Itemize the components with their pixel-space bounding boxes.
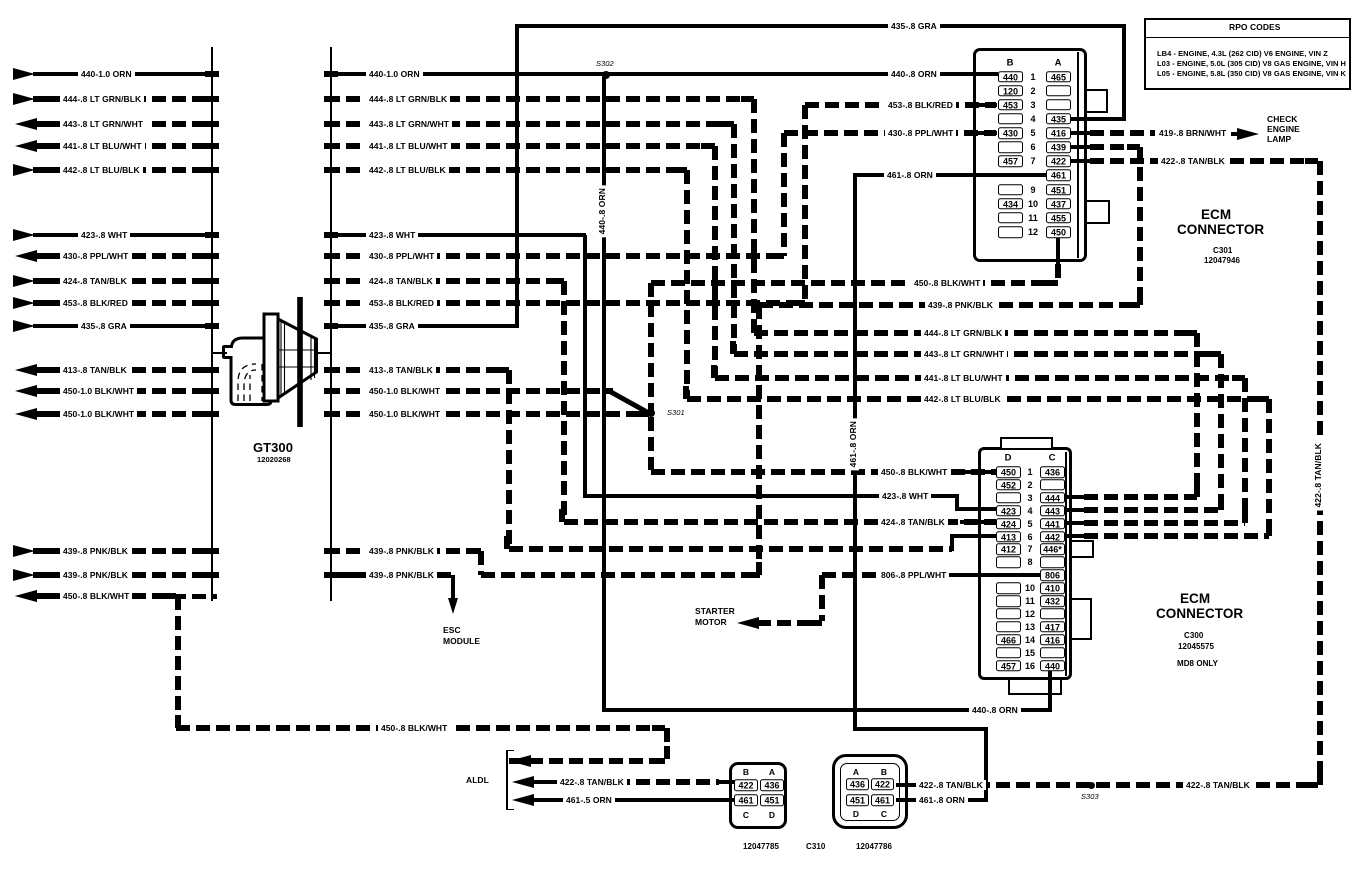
wire starter arrow [737, 617, 759, 629]
ALDL bracket [506, 750, 508, 810]
wire 450 bottom run [176, 725, 665, 731]
wire 450-1.0 BLK/WHT row y=391 [15, 385, 37, 397]
wire 450 aldl return [509, 758, 665, 764]
wire 422 vertical label [1313, 440, 1324, 511]
wire 461-.8 ORN bottom label [916, 795, 968, 805]
wire 430-.8 PPL/WHT row y=256 [15, 250, 37, 262]
splice S302 [602, 71, 610, 79]
wire 424 into D5 [564, 519, 996, 525]
splice S303 [1088, 782, 1095, 789]
CHECK ENGINE LAMP text [1264, 114, 1300, 124]
ESC MODULE text [440, 625, 464, 635]
ALDL text [463, 775, 492, 785]
bulkhead pass-through line right [330, 47, 333, 601]
wire 443-.8 LT GRN/WHT row y=124 [15, 118, 37, 130]
wire 461 bottom jog [853, 727, 988, 732]
wire 423 elbow [955, 496, 959, 511]
wire 422 stub right of C310 [896, 783, 976, 788]
bulkhead wire tick stubs [205, 71, 219, 77]
wire 413 elbow into D6 [950, 534, 955, 551]
wire 422 top run [1070, 159, 1090, 164]
wire 450-1.0 BLK/WHT row y=414 [15, 408, 37, 420]
wire 461 top run [853, 173, 1046, 178]
connector C300 body and pins [978, 447, 1072, 680]
wire 424 drop [561, 281, 567, 522]
wire 435 top run [515, 24, 1126, 28]
wire 443 cross run [734, 351, 1221, 357]
wire 444 cross run [754, 330, 1197, 336]
wire 423 horizontal [583, 494, 959, 498]
check engine arrow [1237, 128, 1259, 140]
wire 423-.8 WHT row y=235 [13, 229, 35, 241]
wire 440-1.0 ORN row y=74 [13, 68, 35, 80]
wire 435-.8 GRA row y=326 [13, 320, 35, 332]
wire 442 riser [684, 170, 690, 399]
wire 450 diagonal jog [609, 389, 652, 416]
wire 440 up to C16 [1048, 669, 1053, 710]
wire 461 vertical [853, 175, 858, 729]
wire 443 right drop [1218, 354, 1224, 510]
wire 440-.8 ORN label right [888, 69, 940, 79]
RPO CODES box [1144, 18, 1351, 90]
ECM CONNECTOR C300 text [1177, 594, 1213, 604]
wire 435 right drop [1122, 26, 1126, 121]
wire 422 aldl row [512, 776, 534, 788]
connector C301 body and pins [973, 48, 1087, 262]
ESC module drop wire [451, 575, 455, 600]
wire 439-.8 PNK/BLK row y=551 [13, 545, 35, 557]
wire 444 into C3 [1062, 495, 1084, 500]
connector C310 right half 12047786 [832, 754, 908, 829]
wire 424-.8 TAN/BLK row y=281 [13, 275, 35, 287]
wire 430 riser [781, 133, 787, 256]
wire starter riser [819, 575, 825, 621]
wire 413-.8 TAN/BLK row y=370 [15, 364, 37, 376]
wire 442 right drop [1266, 399, 1272, 536]
wire 450 into D1 [651, 469, 996, 475]
wire 806 run [822, 572, 877, 578]
GT300 grommet drawing [205, 280, 350, 470]
wire 439 mid run [759, 302, 1140, 308]
label 12047785 [740, 842, 782, 852]
wire 453 to B3 [805, 102, 996, 108]
wire 442 into C6 [1062, 534, 1084, 539]
wire 442-.8 LT BLU/BLK row y=170 [13, 164, 35, 176]
bulkhead pass-through line left [211, 47, 214, 601]
wire grommet stub right [316, 352, 332, 355]
wire 444-.8 LT GRN/BLK row y=99 [13, 93, 35, 105]
wire 444 right drop [1194, 333, 1200, 497]
connector C310 left half 12047785 [729, 762, 787, 829]
wire 439 right drop [1137, 147, 1143, 305]
wire 413 low run [509, 546, 952, 552]
wire 450 riser above S301 [648, 283, 654, 410]
wire 422 right vertical [1317, 161, 1323, 783]
wire 443 riser [731, 124, 737, 354]
wire 450-.8 BLK/WHT row y=596 [15, 590, 37, 602]
wire 450 below S301 [648, 417, 654, 470]
wire 422 bottom run [976, 782, 1318, 788]
wire 461 vertical label [848, 418, 859, 470]
GT300 label [250, 443, 296, 453]
label 12047786 [853, 842, 895, 852]
wire 444 riser [751, 99, 757, 333]
wire 450 upper run [651, 280, 1058, 286]
ECM CONNECTOR C301 text [1198, 210, 1234, 220]
wire 450 bottom drop [175, 596, 181, 726]
wire 435 vertical left [515, 26, 519, 328]
wire 450 from A12 [1056, 237, 1060, 264]
wire 442 cross run [687, 396, 1269, 402]
wire 441-.8 LT BLU/WHT row y=146 [15, 140, 37, 152]
wire 440 bottom run [602, 708, 1052, 713]
wire 439 merge corner [478, 551, 484, 575]
label C310 [803, 842, 828, 852]
STARTER MOTOR text [692, 606, 738, 616]
wire 440 vertical label [597, 185, 608, 237]
wire 443 into C4 [1062, 508, 1084, 513]
wire 441 riser [712, 146, 718, 378]
wire 430 to B5 [784, 130, 996, 136]
wire 441 right drop [1242, 378, 1248, 523]
wire 453 riser [802, 105, 808, 303]
dashed corner chunks [741, 96, 754, 102]
wire 450 aldl loop down [664, 728, 670, 759]
wire 441 cross run [715, 375, 1245, 381]
wire 453-.8 BLK/RED row y=303 [13, 297, 35, 309]
wire 450-.8 BLK/WHT row y=596 [15, 590, 37, 602]
wire grommet stub left [212, 352, 227, 355]
wire 461 aldl row [512, 794, 534, 806]
wire 439 center riser [756, 305, 762, 575]
wire 423 vertical [583, 235, 587, 496]
wire 440-.8 ORN vertical [602, 74, 607, 710]
wire 413 drop [506, 370, 512, 549]
wire 439 stub at A6 [1070, 145, 1090, 150]
wire 439-.8 PNK/BLK row y=575 [13, 569, 35, 581]
splice S301 [647, 409, 655, 417]
wire 441 into C5 [1062, 521, 1084, 526]
wire 419 run [1070, 131, 1090, 136]
